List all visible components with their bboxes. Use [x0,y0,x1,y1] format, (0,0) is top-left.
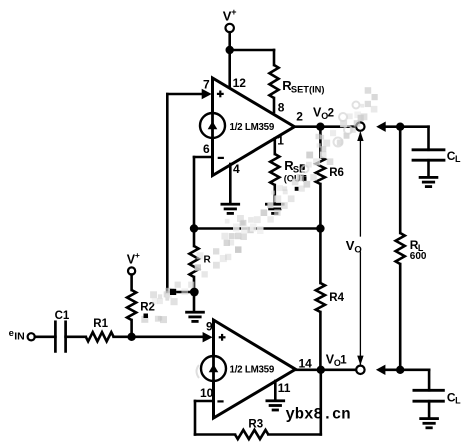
svg-text:L: L [455,154,461,164]
svg-text:R1: R1 [93,318,108,330]
svg-text:8: 8 [278,100,285,114]
svg-text:R: R [204,255,212,266]
svg-text:1: 1 [340,354,347,366]
svg-text:e: e [9,328,14,339]
svg-text:1/2 LM359: 1/2 LM359 [230,122,275,133]
svg-text:11: 11 [278,381,291,395]
svg-text:12: 12 [233,76,247,90]
svg-text:1: 1 [277,134,284,148]
svg-text:+: + [135,250,140,260]
svg-text:SET(IN): SET(IN) [291,85,325,95]
svg-text:14: 14 [299,356,313,370]
svg-text:4: 4 [233,162,240,176]
svg-text:2: 2 [328,107,334,119]
svg-text:9: 9 [206,320,213,334]
svg-text:R3: R3 [248,419,263,431]
svg-text:IN: IN [14,331,25,343]
svg-text:10: 10 [200,386,214,400]
svg-text:R6: R6 [329,167,344,179]
svg-text:+: + [231,7,236,17]
svg-text:ybx8.cn: ybx8.cn [286,406,351,424]
svg-text:C1: C1 [55,310,70,322]
svg-text:600: 600 [410,251,427,262]
svg-text:O: O [354,244,361,255]
svg-text:7: 7 [203,78,210,92]
svg-text:1/2 LM359: 1/2 LM359 [230,365,275,376]
svg-text:2: 2 [296,109,303,123]
svg-text:R4: R4 [329,292,344,304]
svg-text:6: 6 [203,142,210,156]
svg-text:L: L [455,396,461,406]
